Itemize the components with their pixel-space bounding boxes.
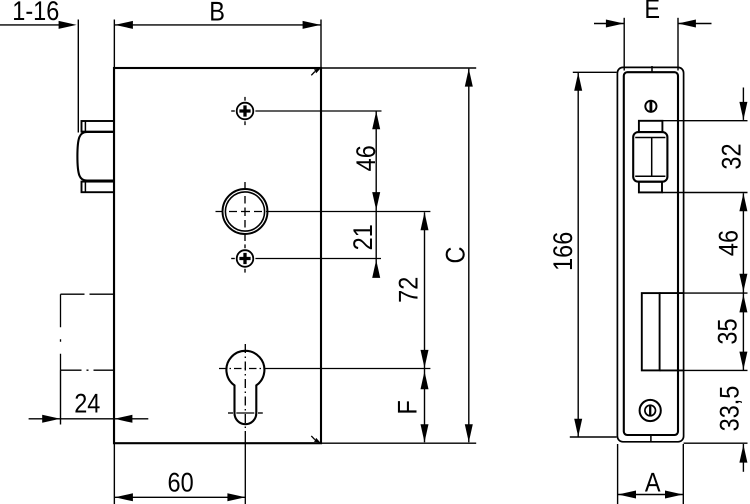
svg-text:33,5: 33,5 [715,386,745,432]
svg-text:60: 60 [168,468,194,498]
svg-text:46: 46 [714,230,744,256]
svg-text:E: E [644,0,660,24]
svg-text:32: 32 [717,143,747,169]
svg-text:21: 21 [348,224,378,250]
svg-text:1-16: 1-16 [12,0,59,26]
svg-text:35: 35 [713,318,743,344]
svg-text:F: F [393,400,423,414]
svg-text:A: A [645,468,661,498]
svg-text:46: 46 [351,145,381,171]
svg-text:C: C [440,247,470,264]
svg-text:166: 166 [548,232,578,271]
svg-text:B: B [209,0,225,27]
svg-text:72: 72 [394,277,424,303]
svg-text:24: 24 [74,389,100,419]
